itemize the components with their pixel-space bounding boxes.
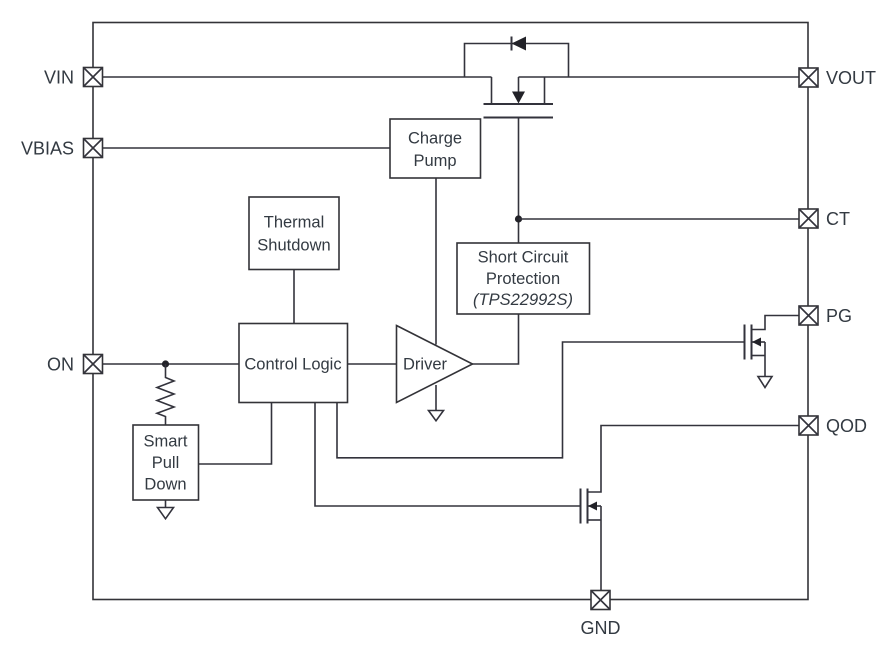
wire VIN to PMOS drain	[103, 76, 492, 78]
wire ON to control logic	[103, 363, 240, 365]
svg-text:VBIAS: VBIAS	[21, 139, 74, 159]
wire smart pull down to control logic	[199, 403, 272, 465]
ground (driver)	[429, 411, 444, 421]
block: Charge Pump	[390, 119, 481, 178]
wire PMOS gate down to SCP	[518, 118, 520, 244]
svg-text:Pump: Pump	[413, 152, 456, 170]
outer device boundary	[93, 23, 808, 600]
pin PG	[799, 306, 852, 326]
node gate/CT junction	[515, 215, 522, 222]
transistor Q2 PG NMOS	[745, 316, 800, 377]
node ON/resistor junction	[162, 360, 169, 367]
svg-text:(TPS22992S): (TPS22992S)	[473, 291, 573, 309]
wire thermal shutdown to control logic	[293, 270, 295, 324]
op-amp U1 Driver	[397, 326, 473, 403]
wire CT line	[519, 218, 800, 220]
pin VBIAS	[21, 139, 103, 159]
block: Control Logic	[239, 324, 348, 403]
resistor R1	[157, 364, 174, 425]
wire control logic to driver	[348, 363, 397, 365]
pin VIN	[44, 68, 103, 88]
transistor Q3 QOD NMOS	[581, 426, 800, 591]
svg-text:Driver: Driver	[403, 356, 448, 374]
pin GND	[581, 591, 621, 639]
svg-text:Control Logic: Control Logic	[244, 356, 341, 374]
pin QOD	[799, 416, 867, 436]
svg-text:Charge: Charge	[408, 130, 462, 148]
wire control logic to QOD FET gate	[315, 403, 581, 507]
wire VBIAS to charge pump	[103, 147, 391, 149]
svg-text:Smart: Smart	[143, 433, 187, 451]
svg-text:VOUT: VOUT	[826, 68, 876, 88]
wire PMOS source to VOUT	[519, 76, 800, 78]
wire smart pull down to ground	[165, 500, 167, 508]
wire charge pump to driver	[435, 178, 437, 345]
svg-text:Down: Down	[144, 476, 186, 494]
svg-text:VIN: VIN	[44, 68, 74, 88]
transistor Q1 pass PMOS	[484, 77, 554, 118]
ground (PG FET)	[758, 377, 772, 388]
pin VOUT	[799, 68, 876, 88]
diode D1 (body diode)	[512, 37, 527, 51]
pin ON	[47, 355, 103, 375]
svg-text:Protection: Protection	[486, 270, 560, 288]
svg-text:Shutdown: Shutdown	[257, 237, 330, 255]
svg-text:PG: PG	[826, 306, 852, 326]
svg-text:GND: GND	[581, 618, 621, 638]
svg-text:Short Circuit: Short Circuit	[478, 249, 569, 267]
svg-text:Pull: Pull	[152, 454, 180, 472]
block: Smart Pull Down	[133, 425, 199, 500]
svg-text:ON: ON	[47, 355, 74, 375]
wire control logic to PG FET gate	[337, 342, 745, 458]
svg-text:QOD: QOD	[826, 416, 867, 436]
svg-text:CT: CT	[826, 209, 850, 229]
wire body-diode loop	[465, 44, 569, 78]
block: Short Circuit Protection	[457, 243, 590, 314]
wire driver to ground	[435, 385, 437, 410]
ground (smart pull down)	[158, 508, 174, 519]
wire SCP to driver output	[473, 314, 519, 364]
pin CT	[799, 209, 850, 229]
block: Thermal Shutdown	[249, 197, 339, 270]
svg-text:Thermal: Thermal	[264, 214, 325, 232]
